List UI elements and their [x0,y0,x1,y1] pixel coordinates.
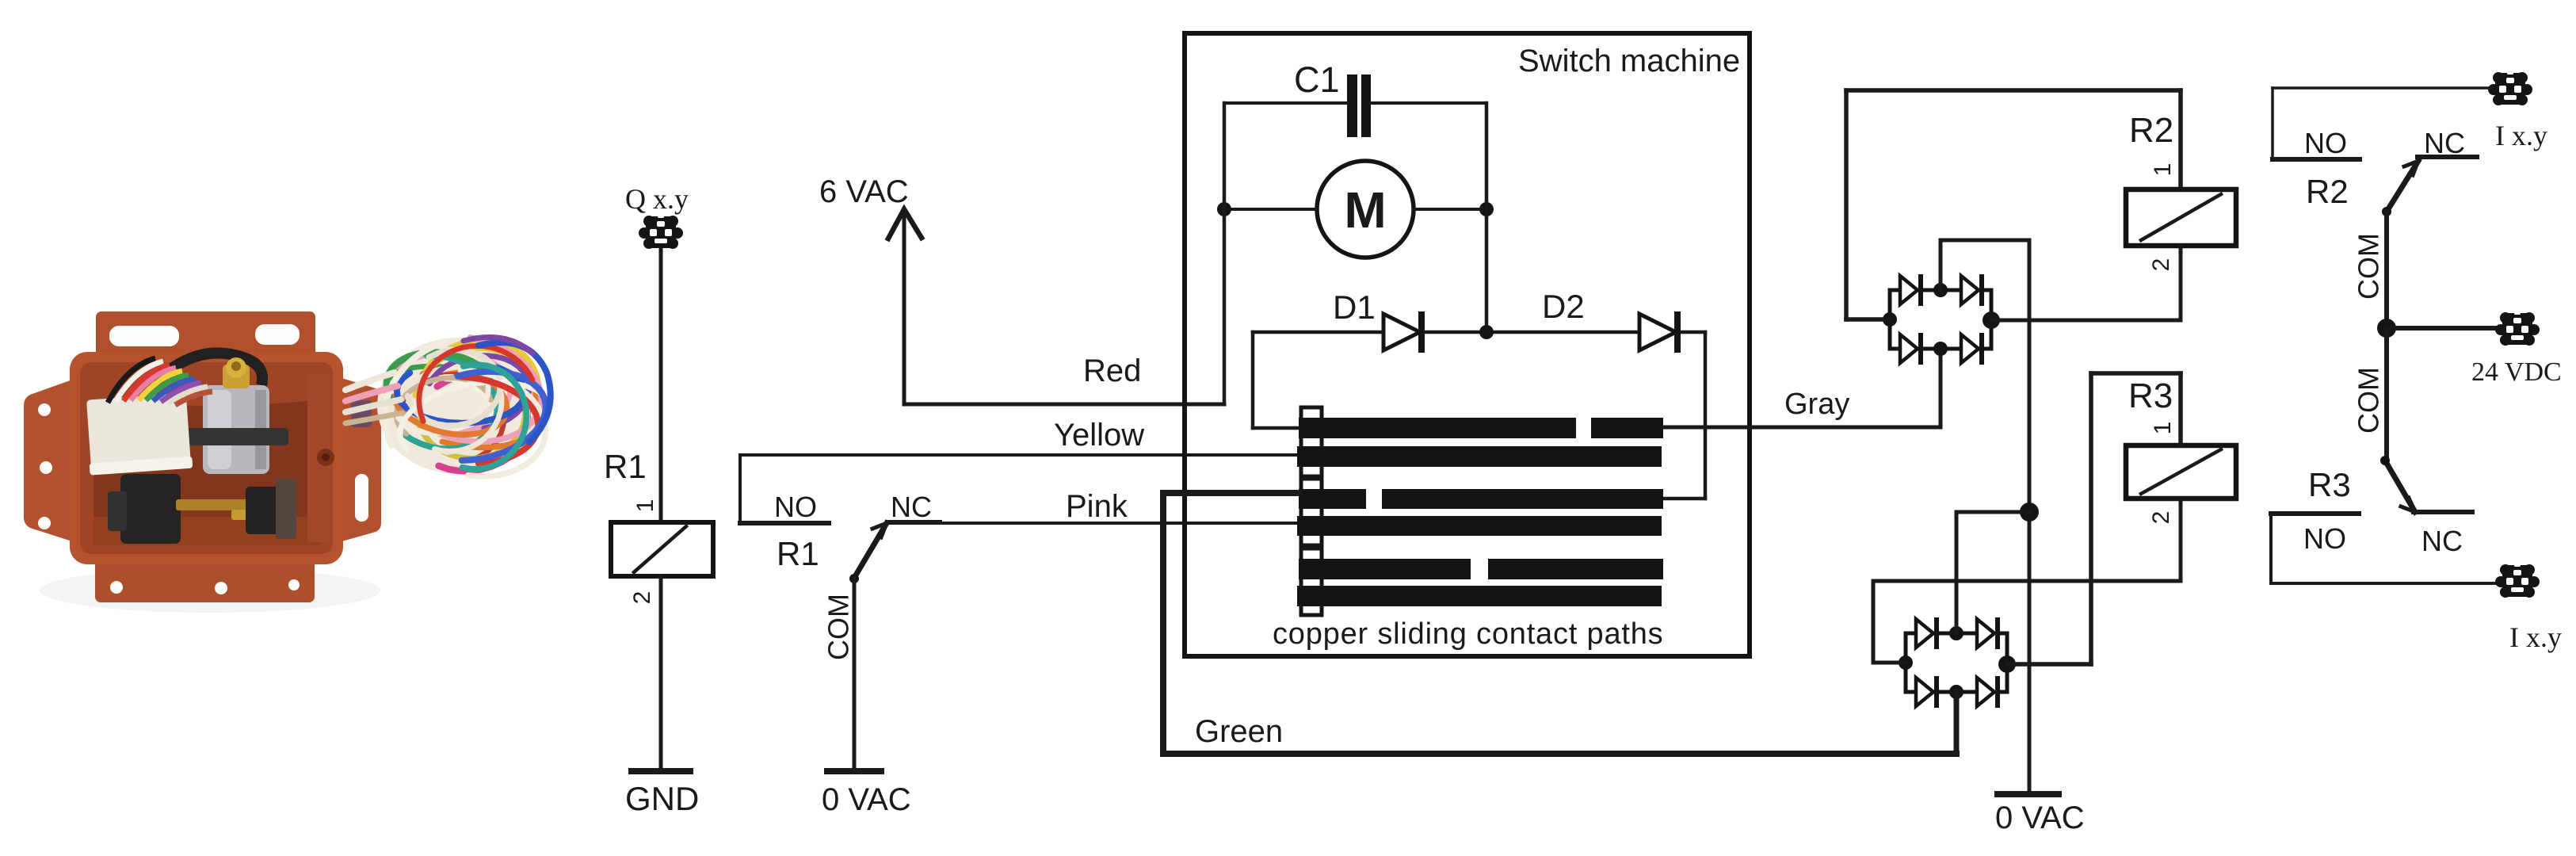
copper path row 5 [1299,559,1663,579]
wire: motor left lead [1224,208,1317,211]
contact R1 NO terminal [740,491,829,523]
capacitor C1 [1294,59,1371,137]
bridge R2 diode top-left [1900,274,1923,306]
junction: motor right node [1479,202,1494,216]
photo: bottom mounting flange [95,553,315,602]
svg-text:R1: R1 [777,535,819,572]
svg-text:Q x.y: Q x.y [625,183,689,215]
svg-text:0 VAC: 0 VAC [822,782,911,817]
junction: 24 VDC node [2377,319,2396,338]
relay coil R1 [604,448,713,576]
wire: Red (6 VAC to motor junction) [904,353,1224,404]
junction: bridge R2 right node [1983,311,2000,329]
wire: bridge R2 top mid to 0 VAC rail [1941,240,2029,290]
wire: Green vertical [1160,493,1166,754]
label: copper sliding contact paths [1273,617,1663,651]
wire: D2 cathode down to row 3 right end [1663,332,1705,499]
node 24 VDC connector [2471,311,2562,387]
bridge R2 diode bottom-left [1900,333,1923,365]
contact R3 NO terminal [2271,514,2359,555]
svg-text:Yellow: Yellow [1054,418,1144,453]
wire: Yellow drop to NO terminal [738,455,742,522]
junction: bridge R3 top mid node [1949,626,1963,640]
svg-text:6 VAC: 6 VAC [819,174,909,209]
photo: left mounting flange [24,379,74,542]
wire: bridge R2 left node loop to R2 pin 1 [1846,90,2181,319]
ground GND [625,771,699,817]
label COM (R2 contact) [2353,233,2385,300]
svg-text:Pink: Pink [1066,489,1128,524]
bridge R3 diode bottom-right [1977,676,2000,708]
contact R1 NC terminal [887,491,940,523]
svg-text:NO: NO [774,491,817,523]
svg-text:C1: C1 [1294,59,1340,100]
contact R3 NC terminal [2414,512,2472,557]
wire: R1 pin 2 to GND [659,576,663,771]
junction: bridge R3 left node [1899,655,1913,670]
bridge R3 diode top-left [1916,617,1939,649]
wire: diode rail segments [1253,331,1705,334]
wire: 0 VAC rail vertical [2028,240,2032,794]
contact R2 NO terminal [2273,127,2360,159]
node I x.y (top) : PLC input connector [2488,71,2547,151]
photo: switch machine device housing [24,311,381,613]
wire: right branch vertical (motor to diode line) [1485,103,1489,332]
svg-text:Switch machine: Switch machine [1518,44,1740,78]
contact R2 lever (COM to NC) [2382,161,2418,216]
wire: bridge R3 left node to R3 pin 2 [1873,499,2181,663]
svg-text:COM: COM [2353,233,2385,300]
svg-text:0 VAC: 0 VAC [1995,801,2085,835]
junction: bridge R3 right node [1998,655,2016,673]
relay coil R2 [2126,111,2236,246]
contact R2 NC terminal [2418,127,2477,159]
pin label 1 (R2 coil) [2150,163,2176,177]
rectifier bridge for R3: outline [1906,633,2007,692]
label R1 (contact) [777,535,819,572]
label COM (R1 contact) [822,594,855,660]
relay coil R3 [2126,376,2236,499]
svg-text:1: 1 [2150,422,2176,435]
slider contact 1 [1301,407,1322,476]
photo: top mounting flange [96,311,315,361]
wire: bridge R3 bottom mid to Green [1954,692,1960,754]
label R3 (contact) [2308,466,2351,503]
svg-text:NC: NC [891,491,932,523]
svg-text:NC: NC [2421,525,2463,557]
wire: R2 COM down to 24 VDC node [2384,212,2389,328]
label COM (R3 contact) [2353,367,2385,434]
rectifier bridge for R2: outline [1890,290,1991,349]
wire: row 3 left to Green vertical [1163,490,1299,496]
wire: R3 pin 1 to bridge right node [2007,373,2181,664]
bridge R2 diode top-right [1961,274,1984,306]
diode D2 [1542,288,1681,353]
pin label 1 (R1) [632,499,658,513]
slider contact 2 [1301,479,1322,545]
photo: colored wire bundle [377,338,551,476]
contact R1 lever (COM to NC) [849,523,887,583]
pin label 2 (R2 coil) [2148,258,2174,272]
wire: 0 VAC node to bridge R3 top mid [1956,512,2029,633]
svg-text:NO: NO [2303,522,2346,555]
photo: black actuator block [120,474,181,544]
svg-text:24 VDC: 24 VDC [2471,357,2562,387]
junction: bridge R2 left node [1883,312,1897,327]
copper path row 2 [1297,446,1662,467]
svg-text:R1: R1 [604,448,647,485]
diode D1 [1333,289,1425,353]
net 0 VAC (left) [822,771,911,817]
svg-text:M: M [1344,182,1386,239]
wire: left branch vertical (Red node to C1/motor) [1223,103,1227,404]
svg-text:Gray: Gray [1784,388,1849,421]
wire: Gray (row 1 to rectifier R2 bridge) [1663,388,1941,427]
wire: 24 VDC node down to R3 COM [2384,328,2389,460]
pin label 2 (R3 coil) [2148,511,2174,525]
node I x.y (bottom) : PLC input connector [2495,563,2562,653]
copper path row 1 [1299,418,1663,438]
wire: motor right lead [1414,208,1486,211]
photo: wires from housing to bundle [345,373,403,423]
wire: 24 VDC feed [2387,326,2500,331]
svg-text:COM: COM [822,594,855,660]
node Q x.y : PLC output connector [625,183,689,249]
wire: C1 left lead [1224,101,1347,105]
photo: inner mechanism [85,353,296,544]
svg-text:2: 2 [629,591,655,605]
junction: diode rail / motor node [1479,325,1494,339]
contact R3 lever (COM to NC) [2380,456,2415,512]
wire: Gray vertical up to bridge bottom node [1939,349,1943,427]
junction: motor left node [1217,202,1231,216]
svg-text:I x.y: I x.y [2495,120,2547,151]
wire: COM to 0 VAC [853,579,857,771]
wire: diode rail left down to row 1 left end [1253,332,1303,428]
svg-text:D2: D2 [1542,288,1585,325]
label R2 (contact) [2306,173,2349,210]
junction: bridge R2 top mid node [1933,283,1948,297]
bridge R3 diode top-right [1977,617,2000,649]
net 0 VAC (right) [1995,794,2085,835]
svg-text:R2: R2 [2306,173,2349,210]
pin label 2 (R1) [629,591,655,605]
wire: Green (to rectifier R3 bridge) [1163,714,1956,754]
copper path row 6 [1297,586,1662,606]
svg-text:R3: R3 [2308,466,2351,503]
junction: bridge R2 bottom mid node [1933,342,1948,356]
net 6 VAC with arrow [819,174,922,404]
photo: white wire connector block [85,393,193,476]
svg-text:1: 1 [2150,163,2176,177]
svg-text:1: 1 [632,499,658,513]
wire: Q x.y to relay coil R1 pin 1 [659,249,663,522]
svg-text:GND: GND [625,780,699,817]
svg-text:R2: R2 [2129,111,2173,150]
svg-text:Green: Green [1195,714,1283,749]
copper path row 4 [1297,516,1662,536]
copper path row 3 [1299,489,1663,509]
svg-text:2: 2 [2148,511,2174,525]
junction: 0 VAC rail node [2020,503,2039,522]
svg-text:R3: R3 [2128,376,2173,415]
wire: R2 pin 2 to bridge right node [1991,246,2181,320]
wire: R3 NO terminal to I x.y (bottom) [2271,514,2498,583]
bridge R3 diode bottom-left [1916,676,1939,708]
svg-text:I x.y: I x.y [2509,621,2562,653]
switch machine enclosure box [1185,33,1750,656]
junction: bridge R3 bottom mid node [1949,685,1963,699]
wire: Yellow (NO contact to contact path row 2) [740,418,1297,455]
svg-text:NO: NO [2304,127,2347,159]
svg-text:D1: D1 [1333,289,1376,326]
motor M [1317,161,1414,258]
photo: main housing body [70,352,343,564]
wire: Pink (NC contact to contact path row 4) [889,489,1297,524]
svg-text:Red: Red [1083,353,1141,388]
svg-text:NC: NC [2424,127,2465,159]
photo: right mounting flange [339,377,381,542]
svg-text:copper sliding contact paths: copper sliding contact paths [1273,617,1663,651]
svg-text:COM: COM [2353,367,2385,434]
bridge R2 diode bottom-right [1961,333,1984,365]
pin label 1 (R3 coil) [2150,422,2176,435]
svg-text:2: 2 [2148,258,2174,272]
slider contact 3 [1301,548,1322,615]
wire: I x.y to R2 NO terminal [2273,88,2492,159]
wire: C1 right lead [1371,101,1486,105]
